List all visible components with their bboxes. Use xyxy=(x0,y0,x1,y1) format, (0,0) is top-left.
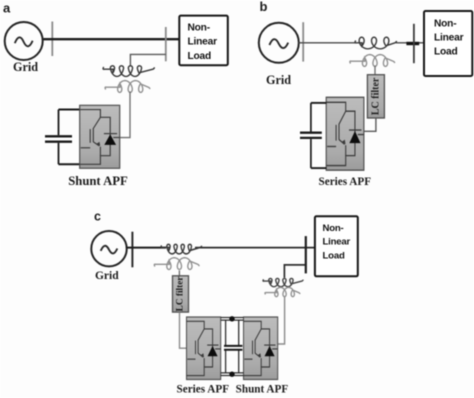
svg-text:Linear: Linear xyxy=(434,33,464,44)
svg-text:b: b xyxy=(260,0,268,14)
svg-text:Non-: Non- xyxy=(188,23,210,34)
svg-text:Grid: Grid xyxy=(266,73,291,87)
svg-text:Series APF: Series APF xyxy=(319,176,372,188)
svg-text:Shunt APF: Shunt APF xyxy=(68,174,128,188)
svg-text:Load: Load xyxy=(323,250,345,261)
svg-text:Linear: Linear xyxy=(188,37,218,48)
svg-text:LC filter: LC filter xyxy=(176,277,186,312)
svg-text:Load: Load xyxy=(188,51,212,62)
svg-text:c: c xyxy=(94,210,101,224)
svg-text:Linear: Linear xyxy=(323,237,351,248)
svg-text:Load: Load xyxy=(434,47,458,58)
svg-text:Series APF: Series APF xyxy=(177,384,230,396)
svg-text:Non-: Non- xyxy=(434,19,456,30)
svg-text:Non-: Non- xyxy=(323,223,344,234)
svg-text:Grid: Grid xyxy=(13,60,38,74)
svg-text:Grid: Grid xyxy=(95,270,119,282)
svg-text:a: a xyxy=(3,1,11,16)
svg-text:Shunt APF: Shunt APF xyxy=(236,384,289,396)
svg-text:LC filter: LC filter xyxy=(370,77,381,115)
